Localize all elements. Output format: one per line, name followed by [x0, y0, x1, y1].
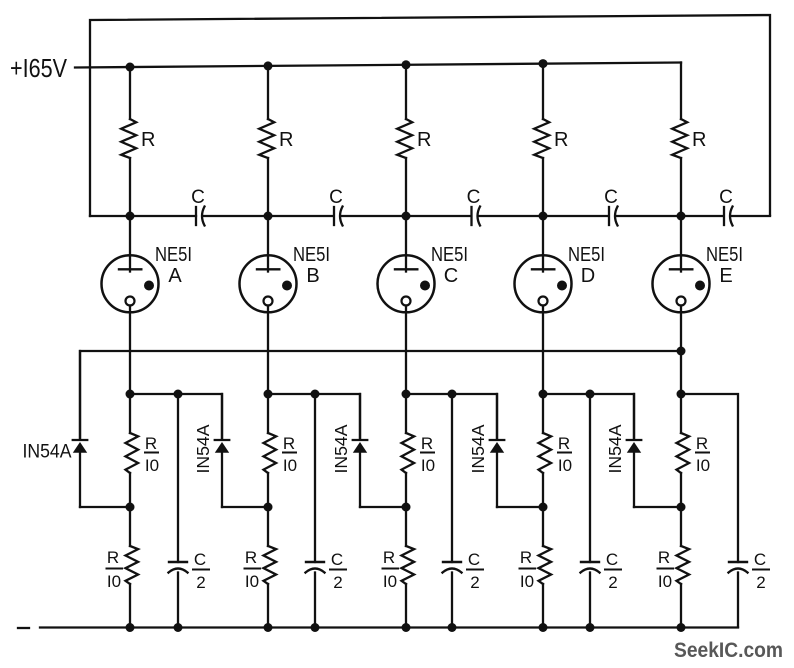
resistor R3 (value R, anode resistor stage C) — [397, 65, 412, 216]
svg-text:B: B — [306, 265, 319, 287]
wire cathode node B to diode CR3 top — [268, 394, 360, 439]
svg-text:R: R — [696, 434, 708, 453]
diode CR3 1N54A — [353, 394, 368, 507]
svg-text:I0: I0 — [520, 572, 534, 591]
svg-text:C: C — [194, 550, 206, 569]
neon lamp V5 NE51 E — [653, 216, 710, 394]
wire bottom return rail — [40, 626, 738, 628]
junction +165V rail / R3 — [402, 60, 411, 69]
svg-text:R: R — [520, 548, 532, 567]
resistor R4 (value R, anode resistor stage D) — [534, 64, 549, 216]
wire cathode node D to diode CR5 top — [543, 394, 634, 439]
junction bottom rail / R11 — [126, 623, 135, 632]
svg-text:2: 2 — [333, 573, 342, 592]
svg-text:C: C — [191, 187, 205, 208]
svg-text:R: R — [554, 129, 568, 151]
svg-text:R: R — [658, 548, 670, 567]
resistor R10 (value R/10, upper divider stage E) — [677, 394, 690, 507]
resistor R14 (value R/10, lower divider stage D) — [539, 507, 552, 627]
svg-text:A: A — [168, 265, 182, 287]
svg-text:R: R — [141, 129, 155, 151]
junction divider tap B — [264, 503, 273, 512]
wire diode CR5 cathode to divider tap E — [634, 506, 681, 508]
svg-text:NE5I: NE5I — [706, 243, 743, 266]
junction cathode node B — [264, 390, 273, 399]
junction cathode node C / C8 branch — [448, 390, 457, 399]
svg-text:I0: I0 — [283, 456, 297, 475]
wire node A anode bus segment — [90, 215, 196, 217]
wire node C anode bus segment — [342, 215, 472, 217]
svg-text:NE5I: NE5I — [431, 243, 468, 266]
junction anode bus node C — [402, 212, 411, 221]
wire cathode node E to C10 branch — [681, 394, 738, 562]
diode CR4 1N54A — [490, 394, 505, 507]
svg-text:IN54A: IN54A — [331, 424, 351, 473]
svg-text:I0: I0 — [421, 456, 435, 475]
svg-text:R: R — [421, 434, 433, 453]
junction cathode node A / C6 branch — [174, 390, 183, 399]
diode CR5 1N54A — [627, 394, 642, 507]
resistor R2 (value R, anode resistor stage B) — [259, 66, 274, 216]
junction bottom rail / C7 — [311, 623, 320, 632]
svg-text:NE5I: NE5I — [568, 243, 605, 266]
svg-text:R: R — [417, 129, 431, 151]
svg-text:R: R — [558, 434, 570, 453]
label C/2 (value of C6) — [194, 550, 206, 592]
junction +165V rail / R4 — [539, 59, 548, 68]
junction bottom rail / R13 — [402, 623, 411, 632]
capacitor C10 (value C/2, stage E) — [729, 562, 748, 627]
wire diode CR4 cathode to divider tap D — [497, 506, 543, 508]
svg-text:I0: I0 — [383, 572, 397, 591]
neon lamp V4 NE51 D — [515, 216, 572, 394]
svg-text:2: 2 — [196, 573, 205, 592]
resistor R9 (value R/10, upper divider stage D) — [539, 394, 552, 507]
svg-text:C: C — [719, 187, 733, 208]
svg-text:I0: I0 — [658, 572, 672, 591]
capacitor C7 (value C/2, stage B) — [306, 394, 325, 627]
junction cathode node B / C7 branch — [311, 390, 320, 399]
junction bottom rail / C9 — [586, 623, 595, 632]
wire stage E cathode to diode CR1 — [80, 351, 681, 439]
label R/10 (value of R12) — [245, 548, 259, 591]
svg-text:E: E — [719, 265, 732, 287]
junction divider tap E — [677, 503, 686, 512]
svg-text:IN54A: IN54A — [605, 424, 625, 473]
svg-text:C: C — [329, 187, 343, 208]
svg-text:2: 2 — [608, 573, 617, 592]
resistor R8 (value R/10, upper divider stage C) — [402, 394, 415, 507]
label R/10 (value of R7) — [283, 434, 297, 475]
resistor R5 (value R, anode resistor stage E) — [672, 63, 687, 217]
resistor R12 (value R/10, lower divider stage B) — [264, 507, 277, 627]
label R/10 (value of R15) — [658, 548, 672, 591]
junction cathode node A — [126, 390, 135, 399]
capacitor C8 (value C/2, stage C) — [443, 394, 462, 627]
svg-text:D: D — [581, 265, 595, 287]
neon lamp V3 NE51 C — [378, 216, 435, 394]
junction cathode node D — [539, 390, 548, 399]
svg-text:NE5I: NE5I — [155, 243, 192, 266]
label C/2 (value of C10) — [754, 550, 766, 592]
svg-text:R: R — [279, 129, 293, 151]
svg-text:R: R — [692, 129, 706, 151]
svg-text:I0: I0 — [696, 456, 710, 475]
junction bottom rail / R12 — [264, 623, 273, 632]
junction bottom rail / R15 — [677, 623, 686, 632]
junction bottom rail / C6 — [174, 623, 183, 632]
diode CR2 1N54A — [215, 394, 230, 507]
svg-text:C: C — [444, 265, 458, 287]
junction +165V rail / R2 — [264, 61, 273, 70]
svg-text:2: 2 — [756, 573, 765, 592]
wire feedback loop from C5 output back to stage A anode node — [90, 15, 770, 216]
neon lamp V2 NE51 B — [240, 216, 297, 394]
svg-text:R: R — [145, 434, 157, 453]
svg-text:C: C — [754, 550, 766, 569]
junction +165V rail / R1 — [126, 63, 135, 72]
wire diode CR3 cathode to divider tap C — [360, 506, 406, 508]
label C/2 (value of C8) — [468, 550, 480, 592]
svg-text:C: C — [331, 550, 343, 569]
capacitor C4 (value C, coupling D to next stage) — [609, 207, 618, 226]
wire ground return stub — [18, 627, 29, 629]
svg-text:+I65V: +I65V — [10, 53, 68, 83]
label R/10 (value of R11) — [107, 548, 121, 591]
wire node E anode bus segment — [617, 215, 724, 217]
label R/10 (value of R13) — [383, 548, 397, 591]
svg-text:R: R — [107, 548, 119, 567]
wire diode CR1 cathode to divider tap A — [80, 506, 130, 508]
wire diode CR2 cathode to divider tap B — [222, 506, 268, 508]
wire node B anode bus segment — [204, 215, 334, 217]
wire cathode node C to diode CR4 top — [406, 394, 497, 439]
label C/2 (value of C7) — [331, 550, 343, 592]
capacitor C5 (value C, coupling E to next stage) — [724, 207, 733, 226]
svg-text:C: C — [604, 187, 618, 208]
resistor R1 (value R, anode resistor stage A) — [121, 67, 136, 216]
junction cathode node D / C9 branch — [586, 390, 595, 399]
svg-text:I0: I0 — [245, 572, 259, 591]
label R/10 (value of R10) — [696, 434, 710, 475]
wire C5 to feedback bus segment — [732, 215, 771, 217]
svg-text:SeekIC.com: SeekIC.com — [674, 639, 783, 662]
wire node D anode bus segment — [480, 215, 609, 217]
svg-text:IN54A: IN54A — [468, 424, 488, 473]
svg-text:C: C — [606, 550, 618, 569]
neon lamp V1 NE51 A — [102, 216, 159, 394]
resistor R7 (value R/10, upper divider stage B) — [264, 394, 277, 507]
svg-text:R: R — [383, 548, 395, 567]
label R/10 (value of R6) — [145, 434, 159, 475]
junction anode bus node D — [539, 212, 548, 221]
label R/10 (value of R9) — [558, 434, 572, 475]
svg-text:R: R — [245, 548, 257, 567]
capacitor C6 (value C/2, stage A) — [169, 394, 188, 627]
svg-text:C: C — [467, 187, 481, 208]
junction cathode node C — [402, 390, 411, 399]
svg-text:IN54A: IN54A — [193, 424, 213, 473]
junction bottom rail / C8 — [448, 623, 457, 632]
svg-text:IN54A: IN54A — [23, 441, 72, 463]
capacitor C9 (value C/2, stage D) — [581, 394, 600, 627]
junction E cathode / feedback wire — [677, 347, 686, 356]
junction cathode node E — [677, 390, 686, 399]
resistor R6 (value R/10, upper divider stage A) — [126, 394, 139, 507]
svg-text:2: 2 — [470, 573, 479, 592]
svg-text:I0: I0 — [145, 456, 159, 475]
junction divider tap C — [402, 503, 411, 512]
diode CR1 1N54A — [73, 351, 88, 507]
resistor R13 (value R/10, lower divider stage C) — [402, 507, 415, 627]
resistor R15 (value R/10, lower divider stage E) — [677, 507, 690, 627]
junction anode bus node E — [677, 212, 686, 221]
svg-text:I0: I0 — [107, 572, 121, 591]
capacitor C2 (value C, coupling B to next stage) — [334, 207, 343, 226]
junction anode bus node B — [264, 212, 273, 221]
label C/2 (value of C9) — [606, 550, 618, 592]
svg-text:NE5I: NE5I — [293, 243, 330, 266]
capacitor C1 (value C, coupling A to next stage) — [196, 207, 205, 226]
wire +165V rail — [75, 63, 681, 68]
resistor R11 (value R/10, lower divider stage A) — [126, 507, 139, 627]
wire cathode node A to diode CR2 top — [130, 394, 222, 439]
label R/10 (value of R8) — [421, 434, 435, 475]
svg-text:R: R — [283, 434, 295, 453]
label R/10 (value of R14) — [520, 548, 534, 591]
svg-text:I0: I0 — [558, 456, 572, 475]
junction divider tap D — [539, 503, 548, 512]
junction divider tap A — [126, 503, 135, 512]
junction anode bus node A — [126, 212, 135, 221]
svg-text:C: C — [468, 550, 480, 569]
capacitor C3 (value C, coupling C to next stage) — [472, 207, 481, 226]
junction bottom rail / R14 — [539, 623, 548, 632]
